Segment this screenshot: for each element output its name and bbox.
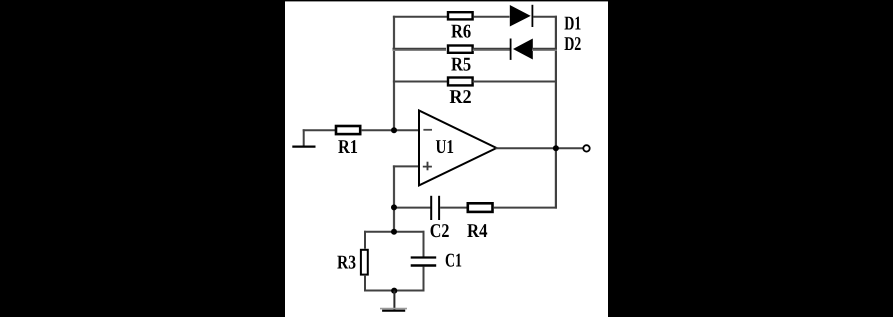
node: lower top junction [391, 229, 397, 235]
resistor R3 [361, 250, 368, 275]
resistor R2 [448, 78, 473, 86]
node: output junction [553, 145, 559, 151]
op-amp U1 [419, 111, 497, 186]
wire: R3 branch upper [364, 231, 366, 249]
plus mark [423, 166, 432, 168]
ground (input) [303, 129, 305, 146]
wire: output [496, 147, 584, 149]
svg-text:R6: R6 [451, 22, 471, 43]
wire: lower bottom rail [364, 290, 425, 292]
diode D2 [510, 39, 512, 60]
wire: R5 to D2 [473, 48, 510, 50]
svg-text:D1: D1 [564, 13, 581, 34]
wire: non-inverting branch vertical [393, 165, 395, 232]
capacitor C1 [411, 256, 437, 258]
wire: R6 to D1 [473, 16, 509, 18]
wire: C2 row from branch [394, 207, 430, 209]
node: lower bottom junction [391, 288, 397, 294]
wire: R2 to right bus [473, 81, 557, 83]
wire: R2 row left [393, 81, 448, 83]
svg-text:R5: R5 [451, 54, 471, 75]
wire: left vertical bus (top rows to inverting node) [393, 16, 395, 131]
output terminal [583, 145, 589, 151]
node: inverting input junction [391, 127, 397, 133]
svg-text:R4: R4 [467, 221, 488, 242]
white schematic band [285, 1, 608, 317]
svg-text:C1: C1 [445, 250, 462, 271]
node: C2 row junction [391, 204, 397, 210]
wire: D2 to right bus [532, 48, 557, 50]
svg-text:R1: R1 [338, 137, 358, 158]
resistor R5 [448, 46, 473, 53]
wire: right vertical bus [555, 16, 557, 209]
svg-text:R3: R3 [337, 252, 356, 273]
resistor R4 [468, 203, 493, 212]
wire: R1 to inverting node [361, 129, 419, 131]
diode D1 [510, 5, 531, 27]
svg-text:D2: D2 [564, 34, 581, 55]
wire: D1 to right bus [533, 16, 557, 18]
svg-text:U1: U1 [436, 137, 455, 158]
wire: R4 to right bus corner [494, 207, 557, 209]
capacitor C2 [430, 196, 432, 220]
wire: top row left (node to R6) [393, 16, 448, 18]
wire: C1 branch lower [423, 267, 425, 292]
wire: lower top rail [364, 231, 425, 233]
minus mark [423, 129, 432, 131]
wire: ground to R1 [303, 129, 336, 131]
svg-text:C2: C2 [430, 221, 450, 242]
wire: R3 branch lower [364, 275, 366, 292]
wire: C2 to R4 [440, 207, 466, 209]
wire: non-inverting input stub [393, 165, 419, 167]
wire: mid row left (node to R5) [393, 48, 447, 50]
ground (bottom) [393, 291, 395, 312]
resistor R6 [448, 12, 473, 19]
resistor R1 [336, 126, 360, 134]
wire: C1 branch upper [423, 231, 425, 257]
svg-text:R2: R2 [449, 87, 471, 108]
